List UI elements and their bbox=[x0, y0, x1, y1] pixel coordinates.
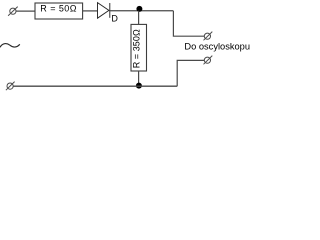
svg-text:R = 50Ω: R = 50Ω bbox=[40, 4, 76, 14]
wire R1 to diode bbox=[83, 10, 98, 12]
svg-text:R = 350Ω: R = 350Ω bbox=[131, 29, 141, 68]
svg-text:D: D bbox=[111, 14, 118, 24]
terminal input bottom-left bbox=[6, 82, 15, 91]
wire node to R2 bbox=[138, 11, 140, 25]
terminal input top-left bbox=[8, 7, 18, 16]
wire top branch to oscilloscope bbox=[173, 11, 204, 37]
AC source sine symbol bbox=[0, 44, 20, 48]
wire R2 to bottom node bbox=[138, 71, 140, 86]
terminal oscilloscope bottom bbox=[204, 56, 213, 65]
node junction bottom bbox=[136, 83, 142, 89]
svg-text:Do oscyloskopu: Do oscyloskopu bbox=[184, 41, 250, 51]
terminal oscilloscope top bbox=[204, 32, 213, 41]
wire input to R1 bbox=[16, 10, 35, 12]
wire bottom branch to oscilloscope bbox=[177, 60, 204, 86]
resistor R = 350 ohm bbox=[131, 24, 147, 71]
wire bottom rail bbox=[13, 85, 177, 87]
diode D bbox=[98, 3, 110, 19]
wire diode to node bbox=[110, 10, 173, 12]
node junction top bbox=[136, 6, 142, 12]
resistor R = 50 ohm bbox=[35, 3, 83, 19]
